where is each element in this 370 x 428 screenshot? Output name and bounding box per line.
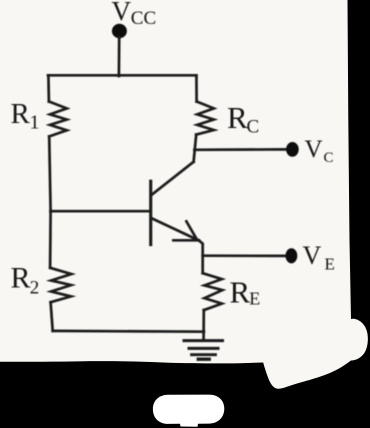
svg-text:CC: CC [131,8,156,29]
wire bottom rail [53,330,204,334]
resistor R1 [49,102,67,137]
resistor RC [196,102,214,135]
transistor Q1 collector lead [152,162,194,195]
svg-text:V: V [305,136,323,163]
wire base node down to R2 [49,211,52,268]
transistor Q1 emitter arrow barb upper [186,221,196,239]
white-out pill blob at bottom [153,395,224,427]
svg-text:1: 1 [30,112,40,134]
svg-text:R: R [227,100,248,135]
wire R2 to bottom rail [51,302,53,331]
svg-text:R: R [11,98,31,130]
wire rail down to RC [195,75,198,101]
wire emitter to VE node [199,240,203,273]
wire RC to collector node [194,135,197,162]
svg-text:2: 2 [30,277,40,298]
wire rail down to R1 [47,75,50,101]
ground bar 4 [198,358,209,361]
ground bar 3 [192,353,216,356]
wire top rail [48,74,196,77]
svg-text:R: R [230,275,251,310]
resistor R2 [50,268,71,302]
transistor Q1 base bar [149,181,152,244]
svg-text:C: C [247,117,260,138]
transistor Q1 emitter lead [152,218,199,240]
wire VE node to VE dot [203,254,286,257]
svg-text:E: E [325,254,335,273]
ground bar 1 [184,339,223,342]
wire VCC dot to top rail [118,37,121,76]
node VE dot [286,248,298,263]
svg-text:E: E [249,289,260,309]
node VCC dot [112,24,127,39]
resistor RE [203,273,223,310]
wire RE to ground [202,310,205,341]
ground bar 2 [189,347,218,350]
node VC dot [286,142,299,157]
wire collector node to VC dot [194,148,286,151]
svg-text:V: V [303,241,322,270]
svg-text:V: V [112,0,132,26]
svg-text:C: C [324,150,334,166]
transistor Q1 emitter arrow barb lower [173,239,198,242]
wire R1 to base node [49,136,50,211]
wire base [51,210,150,213]
svg-text:R: R [11,261,31,294]
